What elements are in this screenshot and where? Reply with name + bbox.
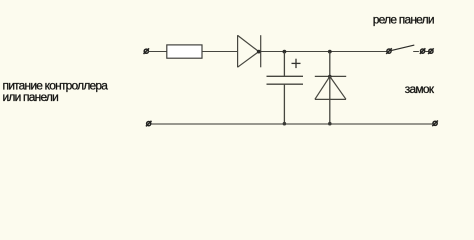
protection diode VD2 (shunt, cathode up) — [315, 52, 346, 124]
terminal X2 (bottom left) — [146, 121, 152, 127]
svg-text:реле панели: реле панели — [373, 12, 434, 26]
switch S1 pivot terminal — [386, 48, 392, 54]
terminal X3 — [420, 48, 426, 54]
wire: X1 to R1 — [149, 51, 168, 53]
junction node: top of C1 — [283, 50, 287, 54]
terminal X1 (top left) — [144, 48, 150, 54]
wire: switch throw to terminal X3 — [413, 51, 419, 53]
wire: D1 to switch — [261, 51, 388, 53]
switch S1 arm (open) — [391, 45, 414, 51]
junction node: bottom of VD2 — [328, 122, 332, 126]
wire: X3 to X4 — [425, 51, 429, 53]
resistor R1 — [167, 45, 202, 58]
svg-text:или панели: или панели — [3, 90, 59, 104]
junction node: bottom of C1 — [283, 122, 287, 126]
svg-text:замок: замок — [405, 82, 435, 96]
diode D1 (series, cathode right) — [238, 35, 261, 67]
junction node at D1 cathode — [257, 50, 261, 54]
bottom wire (return) — [151, 123, 433, 125]
plus sign of C1 — [292, 59, 301, 68]
terminal X4 — [428, 48, 434, 54]
junction node: top of VD2 — [328, 50, 332, 54]
terminal X5 (bottom right) — [432, 121, 438, 127]
capacitor C1 (polarized) — [267, 52, 304, 124]
wire: R1 to D1 — [202, 51, 238, 53]
